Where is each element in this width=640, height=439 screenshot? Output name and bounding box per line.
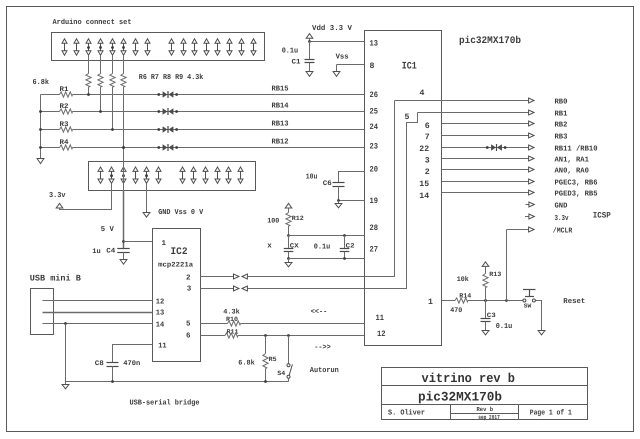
arrowhead row2 left <box>242 286 247 291</box>
svg-text:3: 3 <box>187 285 192 294</box>
svg-text:R6 R7 R8 R9 4.3k: R6 R7 R8 R9 4.3k <box>139 73 204 82</box>
wire USB gnd down <box>65 324 67 382</box>
connector J1 pin arrow A3 <box>86 39 91 55</box>
svg-text:Vss: Vss <box>336 54 349 62</box>
wire R6 to row RB15 <box>88 87 90 95</box>
svg-text:22: 22 <box>419 145 429 154</box>
wire IC2 pin 11 to C8 <box>113 345 153 363</box>
arrowhead row2 right <box>234 286 239 291</box>
title block divider 1 <box>382 385 588 387</box>
svg-text:1: 1 <box>162 240 167 248</box>
wire J2 5V pin down <box>123 148 125 191</box>
resistor R5 <box>263 354 268 369</box>
svg-text:2: 2 <box>186 273 191 282</box>
svg-text:100: 100 <box>267 217 279 225</box>
junction node C2 top <box>343 234 346 237</box>
svg-text:R5: R5 <box>269 356 277 363</box>
svg-text:5 V: 5 V <box>101 226 114 234</box>
svg-text:11: 11 <box>158 342 167 350</box>
svg-text:5: 5 <box>405 113 410 122</box>
svg-text:S4: S4 <box>277 370 285 377</box>
svg-text:3.3v: 3.3v <box>555 214 569 223</box>
ground symbol J2 <box>143 213 150 218</box>
arrowhead AN0, RA0 <box>529 167 534 172</box>
power symbol R12 top <box>285 203 292 208</box>
connector J2 box <box>89 162 256 191</box>
connector J1 pin arrow B7 <box>239 39 244 55</box>
wire from J1 pin down <box>88 55 90 73</box>
ground symbol reset switch <box>538 331 545 335</box>
svg-text:RB0: RB0 <box>555 98 568 107</box>
junction node MCLR-RC <box>484 299 487 302</box>
junction node OSC1 <box>287 234 290 237</box>
wire IC1 pin 1 to R14 <box>442 300 456 302</box>
ground rail wire <box>66 381 289 383</box>
diode pair D-RB15 <box>157 91 178 98</box>
wire RB2 row <box>442 123 529 125</box>
connector J1 pin arrow B5 <box>215 39 220 55</box>
diode pair D-RB14 <box>157 108 178 115</box>
wire C8 to ground rail <box>112 366 114 381</box>
svg-text:PGED3, RB5: PGED3, RB5 <box>555 190 598 199</box>
wire from J1 pin down <box>100 55 102 73</box>
junction node 5V to IC2 <box>122 240 125 243</box>
junction node R3 left <box>39 128 42 131</box>
svg-text:IC1: IC1 <box>402 62 417 73</box>
junction node RB15 <box>87 93 90 96</box>
svg-text:4: 4 <box>420 89 425 98</box>
junction node C8 ground <box>111 380 114 383</box>
wire S4 to ground rail <box>288 378 290 381</box>
wire PGEC3, RB6 row <box>442 181 529 183</box>
diode pair D-RB12 <box>157 144 178 151</box>
connector J1 pin arrow A5 <box>110 39 115 55</box>
svg-text:3: 3 <box>425 157 430 166</box>
svg-text:RB3: RB3 <box>555 133 568 142</box>
svg-text:11: 11 <box>376 314 385 323</box>
wire R12 top stem <box>288 208 290 213</box>
svg-text:Arduino connect set: Arduino connect set <box>53 18 132 27</box>
wire USB D- to IC2 pin 12 <box>43 300 153 302</box>
svg-text:S. Oliver: S. Oliver <box>388 408 425 417</box>
wire 3.3v icsp stub <box>525 216 529 218</box>
svg-text:x: x <box>267 243 272 251</box>
wire R13 top stem <box>485 266 487 273</box>
svg-text:470: 470 <box>450 307 462 315</box>
wire C2 top stem <box>344 236 346 249</box>
svg-text:RB13: RB13 <box>272 120 289 129</box>
svg-text:USB mini B: USB mini B <box>30 274 81 284</box>
svg-text:C8: C8 <box>95 360 104 368</box>
svg-text:AN1, RA1: AN1, RA1 <box>555 157 590 165</box>
ground symbol Vss <box>333 72 340 77</box>
svg-text:1u: 1u <box>92 248 101 256</box>
wire IC2 pin 2 TX <box>201 276 234 278</box>
svg-text:15: 15 <box>419 180 429 189</box>
connector J1 pin arrow B3 <box>192 39 197 55</box>
svg-text:Page 1 of 1: Page 1 of 1 <box>530 409 572 418</box>
resistor R2 <box>60 109 73 114</box>
svg-text:/MCLR: /MCLR <box>553 226 573 235</box>
wire R8 to row RB13 <box>112 87 114 130</box>
title block divider rev cell <box>451 413 519 415</box>
wire R7 to row RB14 <box>100 87 102 112</box>
arrowhead RB3 <box>529 133 534 138</box>
svg-text:27: 27 <box>370 246 379 255</box>
wire J2 gnd pin down <box>146 183 148 212</box>
wire Vdd stem <box>309 38 311 41</box>
wire R11 to IC1 pin 12 <box>238 335 365 337</box>
wire IC2 pin 3 RX <box>201 288 234 290</box>
wire OSC2 ground stem <box>288 259 290 263</box>
wire R13 bottom stem <box>485 288 487 301</box>
connector J1 pin arrow A6 <box>121 39 126 55</box>
wire C1 to ground <box>309 63 311 72</box>
ground symbol C1 <box>306 72 313 77</box>
svg-text:2: 2 <box>425 168 430 177</box>
resistor R12 <box>286 213 291 227</box>
svg-text:14: 14 <box>156 321 165 329</box>
wire 3.3v to J2 <box>60 183 112 209</box>
svg-text:0.1u: 0.1u <box>496 322 513 331</box>
svg-text:RB2: RB2 <box>555 121 568 130</box>
svg-text:RB11 /RB10: RB11 /RB10 <box>555 145 598 154</box>
connector J1 pin arrow B1 <box>169 39 174 55</box>
wire CX top stem <box>288 236 290 249</box>
wire RB13 row left segment <box>41 129 60 131</box>
wire S4 riser <box>288 336 290 364</box>
wire RB14 row middle segment <box>73 111 365 113</box>
capacitor C1 <box>305 60 315 63</box>
wire C6 ground stem <box>338 201 340 204</box>
connector J2 pin arrow A5 <box>144 167 149 183</box>
arrowhead /MCLR <box>529 227 534 232</box>
ground symbol C4 <box>120 260 127 265</box>
power symbol Vdd <box>306 34 313 39</box>
svg-text:13: 13 <box>370 39 379 48</box>
wire Vss down <box>336 65 338 72</box>
svg-text:USB-serial bridge: USB-serial bridge <box>130 399 200 408</box>
junction node C2 bottom <box>343 257 346 260</box>
connector J2 pin arrow B1 <box>180 167 185 183</box>
arrowhead PGEC3, RB6 <box>529 179 534 184</box>
wire switch to ground drop <box>536 301 542 331</box>
wire C3 ground stem <box>485 322 487 330</box>
connector J1 pin arrow B8 <box>251 39 256 55</box>
ground symbol USB <box>62 385 69 389</box>
svg-text:10u: 10u <box>306 173 318 182</box>
svg-text:RB15: RB15 <box>272 86 289 94</box>
wire from J1 pin down <box>112 55 114 73</box>
arrowhead RB1 <box>529 110 534 115</box>
svg-text:23: 23 <box>370 143 379 152</box>
arrowhead RX left facing <box>242 274 247 279</box>
wire RB14 row left segment <box>41 111 60 113</box>
wire AN1, RA1 row <box>442 158 529 160</box>
svg-text:6: 6 <box>425 122 430 131</box>
svg-text:24: 24 <box>370 123 379 132</box>
svg-text:Rev b: Rev b <box>477 406 494 413</box>
svg-text:<<--: <<-- <box>311 309 328 317</box>
svg-text:pic32MX170b: pic32MX170b <box>459 35 521 47</box>
resistor R9 <box>121 74 126 88</box>
resistor R4 <box>60 145 73 150</box>
junction node OSC2 left <box>287 257 290 260</box>
wire PGED3, RB5 row <box>442 192 529 194</box>
wire Vdd to IC1 pin 13 <box>310 41 365 43</box>
junction node RB13 <box>111 128 114 131</box>
svg-text:RB14: RB14 <box>272 103 289 111</box>
wire 5V to IC2 pin 1 <box>124 241 153 243</box>
wire RB12 row middle segment <box>73 147 365 149</box>
wire R9 down to 5V rail <box>123 87 125 148</box>
title block divider 2 <box>382 404 588 406</box>
junction node Vdd <box>308 40 311 43</box>
svg-text:C1: C1 <box>292 58 301 66</box>
left pull bus wire <box>40 95 42 160</box>
wire IC1 pin 20 to C6 <box>339 172 365 184</box>
svg-text:470n: 470n <box>123 360 140 368</box>
svg-text:12: 12 <box>377 330 386 339</box>
svg-text:PGEC3, RB6: PGEC3, RB6 <box>555 179 598 188</box>
svg-text:26: 26 <box>370 91 379 100</box>
svg-text:20: 20 <box>370 166 379 175</box>
capacitor C3 <box>481 319 491 322</box>
svg-text:ICSP: ICSP <box>593 212 611 221</box>
wire RB15 row middle segment <box>73 94 365 96</box>
svg-text:C4: C4 <box>106 247 115 255</box>
junction node R5 top <box>264 334 267 337</box>
wire from J1 pin down <box>123 55 125 73</box>
svg-text:14: 14 <box>419 192 429 201</box>
svg-text:IC2: IC2 <box>171 247 188 258</box>
wire C3 top stem <box>485 301 487 319</box>
IC U-IC1 pic32MX170b box <box>365 31 442 346</box>
svg-text:7: 7 <box>425 133 430 142</box>
diode pair D-RB11 <box>486 144 507 151</box>
connector J1 pin arrow A2 <box>74 39 79 55</box>
wire IC1 pin 8 Vss <box>337 64 365 66</box>
junction node R4 left <box>39 146 42 149</box>
wire AN0, RA0 row <box>442 169 529 171</box>
wire R12 to pin28 row <box>288 226 290 236</box>
svg-text:3.3v: 3.3v <box>49 191 66 200</box>
wire row2 to IC1 internal pin 5 route <box>247 113 417 289</box>
connector J1 pin arrow A1 <box>62 39 67 55</box>
capacitor C2 <box>340 249 350 252</box>
arrowhead 3.3v icsp <box>529 214 534 219</box>
svg-text:6: 6 <box>186 331 191 340</box>
arrowhead TX right <box>234 274 239 279</box>
svg-text:12: 12 <box>156 297 165 306</box>
wire RX to IC1 internal pin 4 route <box>247 101 394 277</box>
svg-text:Reset: Reset <box>563 298 585 306</box>
ground symbol left bus <box>37 159 44 164</box>
arrowhead RB2 <box>529 121 534 126</box>
switch S4 <box>287 364 292 379</box>
svg-text:SW: SW <box>524 303 532 310</box>
connector J2 pin arrow A6 <box>156 167 161 183</box>
svg-text:AN0, RA0: AN0, RA0 <box>555 167 590 176</box>
wire MCLR riser <box>506 230 508 301</box>
junction node R4-R9-5V <box>122 146 125 149</box>
capacitor C4 <box>117 249 129 253</box>
connector J1 pin arrow A7 <box>133 39 138 55</box>
connector J1 pin arrow B4 <box>204 39 209 55</box>
connector J1 pin arrow A8 <box>145 39 150 55</box>
wire USB gnd to IC2 pin 14 <box>43 323 153 325</box>
arrowhead RB0 <box>529 98 534 103</box>
svg-text:RB1: RB1 <box>555 111 568 119</box>
wire 5V rail thick <box>123 191 125 249</box>
svg-text:pic32MX170b: pic32MX170b <box>418 390 502 405</box>
resistor R14 <box>455 298 468 303</box>
svg-text:GND Vss 0 V: GND Vss 0 V <box>158 208 203 217</box>
wire IC1 pin 27 row <box>289 258 365 260</box>
wire C2 bottom stem <box>344 252 346 259</box>
connector J1 pin arrow B2 <box>181 39 186 55</box>
svg-text:19: 19 <box>370 197 379 206</box>
connector J2 pin arrow A1 <box>98 167 103 183</box>
IC U-IC2 mcp2221a box <box>153 229 201 362</box>
wire C4 to ground <box>123 252 125 260</box>
wire GND icsp stub <box>526 204 530 206</box>
svg-text:R12: R12 <box>292 215 304 222</box>
svg-text:vitrino rev b: vitrino rev b <box>422 371 516 386</box>
wire RB12 row left segment <box>41 147 60 149</box>
junction node RB14 <box>99 110 102 113</box>
wire R10 to IC1 pin 11 <box>241 323 365 325</box>
wire RB11 /RB10 row <box>442 147 529 149</box>
junction node R5 ground <box>264 380 267 383</box>
svg-text:Vdd 3.3 V: Vdd 3.3 V <box>312 24 352 33</box>
resistor R1 <box>60 92 73 97</box>
svg-text:13: 13 <box>156 309 165 318</box>
resistor R6 <box>86 74 91 88</box>
power symbol R13 top <box>482 262 489 267</box>
resistor R8 <box>110 74 115 88</box>
svg-text:28: 28 <box>370 224 379 233</box>
wire IC2 pin5 to R10 <box>201 323 228 325</box>
resistor R7 <box>98 74 103 88</box>
capacitor C8 <box>107 363 119 367</box>
resistor R11 <box>225 333 238 338</box>
svg-text:mcp2221a: mcp2221a <box>158 261 194 269</box>
connector J2 pin arrow B6 <box>238 167 243 183</box>
svg-text:Autorun: Autorun <box>310 367 339 375</box>
junction node C6 ground <box>337 199 340 202</box>
title block divider vertical 1 <box>450 405 452 420</box>
junction node USB gnd <box>64 322 67 325</box>
wire R11 row to R5 <box>265 336 267 354</box>
svg-text:0.1u: 0.1u <box>314 243 331 252</box>
svg-text:6.8k: 6.8k <box>33 78 50 87</box>
wire USB D+ to IC2 pin 13 thick <box>43 312 153 314</box>
svg-text:10k: 10k <box>457 275 469 284</box>
svg-text:0.1u: 0.1u <box>282 47 299 56</box>
ground symbol OSC <box>285 263 292 267</box>
arrowhead PGED3, RB5 <box>529 190 534 195</box>
svg-text:-->>: -->> <box>314 344 331 352</box>
svg-text:C6: C6 <box>323 180 332 188</box>
ground symbol C3 <box>482 331 489 335</box>
connector J1 pin arrow B6 <box>227 39 232 55</box>
ground symbol C6 <box>335 204 342 208</box>
title block box <box>382 368 588 420</box>
junction node RB12 <box>122 146 125 149</box>
wire IC2 pin6 to R11 <box>201 335 226 337</box>
connector J2 pin arrow A4 <box>133 167 138 183</box>
connector J2 pin arrow B4 <box>215 167 220 183</box>
svg-text:sep 2017: sep 2017 <box>478 414 500 421</box>
wire RB15 row left segment <box>41 94 60 96</box>
connector J1 pin arrow A4 <box>98 39 103 55</box>
wire Vdd down to C1 <box>309 42 311 60</box>
resistor R3 <box>60 127 73 132</box>
wire /MCLR from reset net <box>507 229 529 231</box>
wire CX to pin27 row <box>288 252 290 259</box>
junction node S4 top <box>287 334 290 337</box>
title block divider vertical 2 <box>518 405 520 420</box>
capacitor CX <box>284 249 294 252</box>
wire RB1 row <box>418 112 529 114</box>
svg-text:25: 25 <box>370 108 379 117</box>
resistor R13 <box>483 274 488 288</box>
wire RB3 row <box>442 135 529 137</box>
arrowhead RB11 /RB10 <box>529 145 534 150</box>
svg-text:4.3k: 4.3k <box>223 307 240 316</box>
svg-text:5: 5 <box>186 321 191 329</box>
svg-text:RB12: RB12 <box>272 138 289 147</box>
wire R5 to ground rail <box>265 369 267 382</box>
capacitor C6 <box>333 183 345 187</box>
svg-text:8: 8 <box>370 62 375 71</box>
resistor R10 <box>228 321 241 326</box>
junction node MCLR riser <box>505 299 508 302</box>
connector J2 pin arrow B5 <box>226 167 231 183</box>
arrowhead GND icsp <box>529 202 534 207</box>
wire R14 to R13 node <box>468 300 507 302</box>
wire IC1 pin 28 row <box>289 235 365 237</box>
svg-text:GND: GND <box>555 202 568 211</box>
svg-text:6.8k: 6.8k <box>238 359 255 368</box>
svg-text:1: 1 <box>428 298 433 307</box>
wire RB13 row middle segment <box>73 129 365 131</box>
wire node to switch <box>507 300 523 302</box>
arrowhead AN1, RA1 <box>529 156 534 161</box>
connector J2 pin arrow B3 <box>203 167 208 183</box>
diode pair D-RB13 <box>157 126 178 133</box>
power symbol 3.3v <box>56 203 63 208</box>
wire RB0 row <box>395 100 529 102</box>
svg-text:R13: R13 <box>489 271 501 278</box>
wire C6 to IC1 pin 19 <box>339 187 365 201</box>
connector J2 pin arrow A3 <box>121 167 126 183</box>
connector J2 pin arrow B2 <box>191 167 196 183</box>
connector J2 pin arrow A2 <box>109 167 114 183</box>
connector J1 Arduino connect set box <box>52 33 265 61</box>
junction node R2 left <box>39 110 42 113</box>
pushbutton SW reset <box>523 290 536 303</box>
connector USB mini B box <box>31 289 54 335</box>
